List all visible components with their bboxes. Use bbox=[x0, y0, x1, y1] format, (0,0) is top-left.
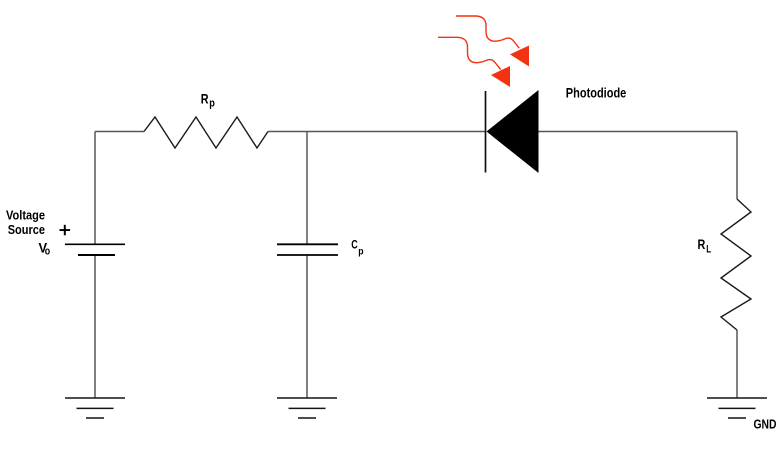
wire capacitor branch lower bbox=[306, 256, 308, 399]
wire: left branch top corner (V source to Rp) bbox=[95, 132, 737, 399]
photodiode D1: cathode bar bbox=[485, 91, 487, 173]
wire right vertical upper bbox=[736, 132, 738, 200]
label Voltage Source bbox=[6, 208, 45, 238]
photodiode D1: triangle bbox=[487, 90, 539, 173]
wire left vertical upper bbox=[94, 132, 96, 245]
label RL bbox=[698, 236, 712, 256]
capacitor Cp bbox=[277, 244, 338, 255]
svg-text:Photodiode: Photodiode bbox=[566, 84, 627, 100]
label Cp bbox=[351, 240, 363, 258]
light ray 1 arrowhead bbox=[510, 46, 529, 67]
ground (left) bbox=[65, 398, 125, 418]
light ray 2 (lower squiggle) bbox=[438, 37, 501, 69]
svg-text:R: R bbox=[698, 236, 706, 252]
svg-text:R: R bbox=[201, 91, 209, 107]
light ray 1 (upper squiggle) bbox=[456, 16, 519, 48]
label plus bbox=[60, 225, 71, 236]
svg-text:Source: Source bbox=[8, 222, 45, 237]
ground (right) bbox=[707, 398, 767, 418]
battery V source bbox=[65, 244, 125, 255]
wire top middle (Rp to photodiode) bbox=[268, 131, 485, 133]
svg-text:L: L bbox=[706, 244, 711, 256]
wire capacitor branch upper bbox=[306, 132, 308, 245]
label Rp bbox=[201, 91, 215, 110]
light ray 2 arrowhead bbox=[491, 66, 510, 87]
svg-text:C: C bbox=[351, 240, 358, 252]
wire right vertical lower bbox=[736, 330, 738, 398]
svg-text:p: p bbox=[209, 98, 215, 110]
svg-text:GND: GND bbox=[754, 417, 777, 432]
svg-text:o: o bbox=[45, 246, 51, 258]
wire top right (photodiode to RL) bbox=[539, 131, 738, 133]
svg-text:p: p bbox=[358, 247, 363, 258]
wire left vertical lower (battery to ground) bbox=[94, 255, 96, 398]
resistor Rp bbox=[144, 117, 268, 148]
resistor RL bbox=[721, 199, 751, 330]
ground (middle) bbox=[277, 398, 337, 418]
label Vo bbox=[39, 239, 51, 257]
wire top left stub bbox=[95, 131, 144, 133]
svg-text:Voltage: Voltage bbox=[6, 208, 45, 223]
